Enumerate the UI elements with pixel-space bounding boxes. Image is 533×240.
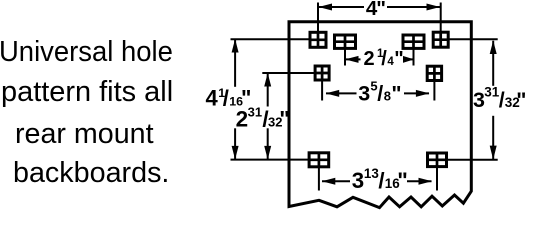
hole top-inner-left bbox=[334, 35, 357, 50]
svg-text:35/8": 35/8" bbox=[358, 79, 401, 106]
hole mid-right bbox=[426, 66, 443, 81]
arrowhead 4in left bbox=[319, 4, 333, 11]
extension line right top row bbox=[450, 38, 498, 40]
dimension line 4 1/16 inch (left vertical) bbox=[234, 40, 236, 160]
arrowhead 3 31/32 up bbox=[490, 41, 497, 55]
extension line left top row bbox=[231, 38, 310, 40]
extension line down from hole top-inner-right bbox=[413, 49, 415, 66]
backboard plate outline with torn bottom edge bbox=[289, 22, 471, 208]
extension line down from hole bottom-left bbox=[318, 167, 320, 191]
arrowhead 3 13/16 left bbox=[322, 178, 336, 185]
extension line up from hole top-outer-right bbox=[440, 3, 442, 33]
dimension line 4 inch (top) bbox=[319, 6, 440, 8]
white backers breaking lines behind labels bbox=[204, 0, 527, 191]
arrowhead 3 13/16 right bbox=[419, 178, 433, 185]
svg-text:4": 4" bbox=[366, 0, 386, 20]
extension line down from hole mid-left bbox=[321, 81, 323, 101]
arrowhead 4 1/16 down bbox=[232, 146, 239, 160]
hole top-outer-left bbox=[309, 32, 327, 48]
extension line up from hole top-outer-left bbox=[317, 3, 319, 33]
arrowhead 3 5/8 right bbox=[416, 90, 430, 97]
svg-text:231/32": 231/32" bbox=[236, 105, 290, 132]
extension line down from hole bottom-right bbox=[436, 167, 438, 191]
arrowhead 2 1/4 right bbox=[403, 56, 414, 63]
arrowhead 2 31/32 up bbox=[264, 73, 271, 87]
dimension line 3 13/16 inch (bottom) bbox=[322, 180, 432, 182]
svg-text:313/16": 313/16" bbox=[352, 166, 408, 193]
arrowhead 2 31/32 down bbox=[264, 146, 271, 160]
dimension line 2 31/32 inch (left inner vertical) bbox=[267, 73, 269, 159]
extension line down from hole top-inner-left bbox=[344, 49, 346, 66]
extension line left middle row bbox=[262, 72, 314, 74]
hole bottom-right bbox=[426, 153, 448, 168]
arrowhead 4in right bbox=[427, 4, 441, 11]
svg-text:21/4": 21/4" bbox=[364, 48, 404, 70]
arrowhead 3 31/32 down bbox=[490, 146, 497, 160]
extension line right bottom row bbox=[448, 159, 498, 161]
extension line down from hole mid-right bbox=[433, 81, 435, 101]
arrowhead 4 1/16 up bbox=[232, 39, 239, 53]
hole top-outer-right bbox=[432, 32, 450, 48]
hole bottom-left bbox=[308, 152, 330, 167]
caption text bbox=[0, 36, 172, 68]
hole mid-left bbox=[314, 66, 330, 81]
arrowhead 3 5/8 left bbox=[326, 90, 340, 97]
hole top-inner-right bbox=[402, 35, 425, 50]
dimension line 3 5/8 inch bbox=[326, 92, 429, 94]
svg-text:331/32": 331/32" bbox=[473, 85, 527, 112]
dimension line 2 1/4 inch bbox=[346, 58, 414, 60]
arrowhead 2 1/4 left bbox=[345, 56, 359, 63]
extension line left bottom row bbox=[231, 159, 309, 161]
dimension line 3 31/32 inch (right vertical) bbox=[492, 41, 494, 160]
